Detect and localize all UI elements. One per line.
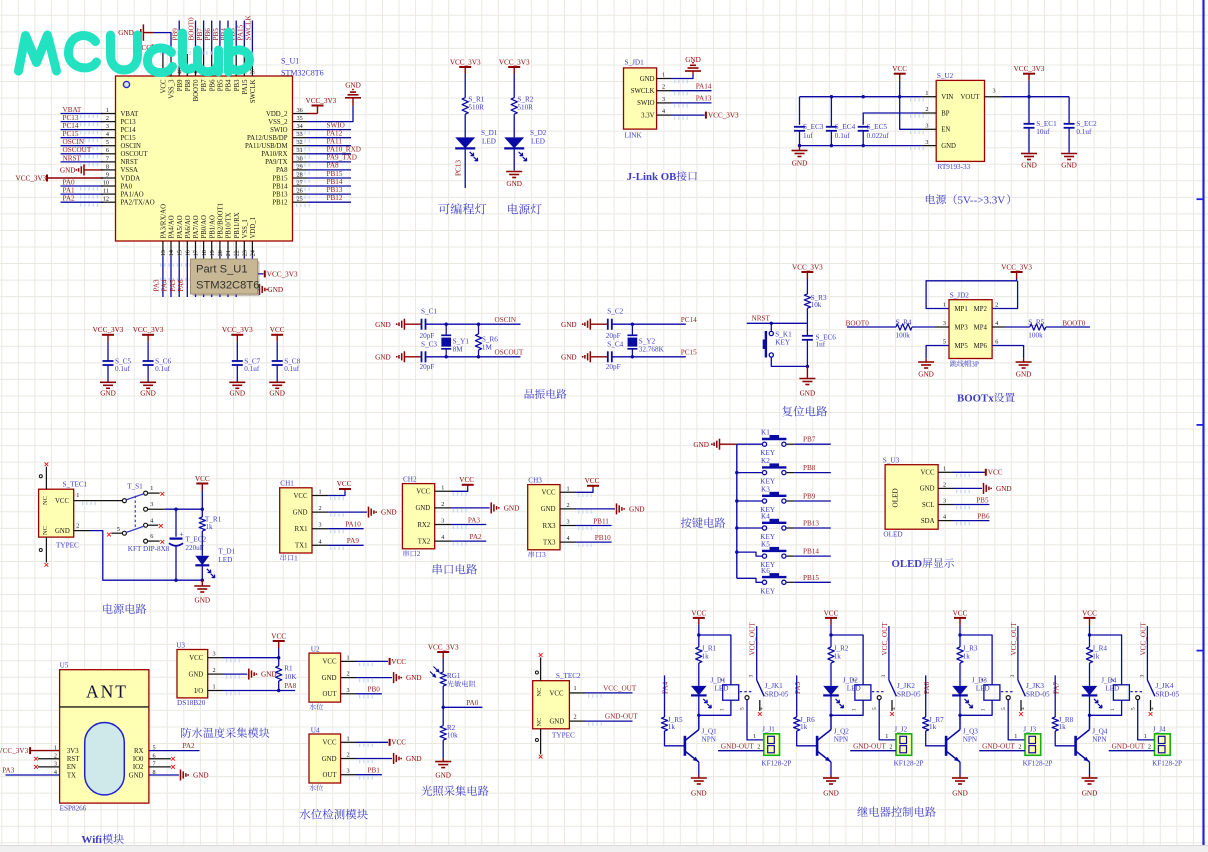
svg-text:0.1uf: 0.1uf (155, 365, 171, 373)
ground MP6 (992, 346, 1024, 359)
svg-text:2: 2 (347, 752, 350, 759)
svg-text:1: 1 (319, 489, 322, 496)
svg-text:7: 7 (106, 155, 109, 162)
svg-text:PB10/TX: PB10/TX (226, 212, 233, 238)
svg-text:PA4: PA4 (161, 279, 169, 292)
svg-text:TYPEC: TYPEC (552, 731, 575, 739)
svg-text:VCC: VCC (189, 655, 203, 662)
svg-text:VCC_3V3: VCC_3V3 (133, 326, 164, 334)
wire net GND-OUT relay (979, 750, 1025, 752)
svg-text:S_D1: S_D1 (481, 129, 498, 137)
svg-text:PB9: PB9 (177, 79, 184, 91)
wire BOOT0 left with resistor S_R4 100k (935, 326, 949, 328)
wire net PA14 (671, 90, 712, 92)
svg-text:PB1: PB1 (368, 766, 381, 774)
svg-text:PA8: PA8 (276, 167, 288, 174)
svg-text:VCC_3V3: VCC_3V3 (267, 270, 298, 278)
svg-text:J_JK1: J_JK1 (765, 682, 783, 690)
svg-text:PA12/USB/DP: PA12/USB/DP (247, 135, 288, 142)
svg-text:PA11/USB/DM: PA11/USB/DM (245, 143, 288, 150)
svg-text:GND: GND (1061, 162, 1077, 170)
wire net GND-OUT relay (850, 750, 896, 752)
svg-text:GND: GND (691, 790, 707, 798)
ground temp sensor (223, 673, 247, 675)
svg-text:S_U2: S_U2 (937, 72, 954, 80)
svg-text:VCC: VCC (161, 79, 168, 93)
key K4 (737, 527, 763, 529)
power VCC OLED (953, 471, 984, 473)
svg-text:T_S1: T_S1 (127, 482, 143, 490)
wire (61, 113, 104, 115)
svg-text:2: 2 (720, 679, 726, 682)
svg-text:29: 29 (297, 163, 303, 170)
svg-text:1: 1 (347, 654, 350, 661)
svg-text:4: 4 (1020, 707, 1026, 710)
label 电源（5V-3.3V） (926, 194, 935, 204)
capacitor S_C5 0.1uf (103, 360, 114, 362)
svg-text:SWCLK: SWCLK (245, 15, 253, 41)
capacitor T_EC2 220uF (175, 509, 177, 537)
svg-text:VCC: VCC (294, 493, 308, 500)
power VCC_3V3 for cap S_C6 (142, 334, 154, 336)
ground into S_C1 (399, 319, 404, 330)
svg-text:KF128-2P: KF128-2P (761, 759, 791, 767)
wire net PB10 (576, 541, 611, 543)
svg-text:KEY: KEY (775, 339, 791, 347)
svg-text:J_R1: J_R1 (702, 645, 717, 653)
key K1 (737, 443, 763, 445)
svg-text:VCC: VCC (391, 739, 406, 747)
wire EN to VIN (900, 97, 922, 130)
svg-text:2: 2 (852, 679, 858, 682)
wire keys trunk (736, 444, 738, 578)
svg-text:OSCOUT: OSCOUT (63, 146, 92, 154)
svg-text:VSS_2: VSS_2 (268, 119, 288, 126)
svg-text:PA12: PA12 (327, 130, 343, 138)
svg-text:GND: GND (60, 167, 76, 175)
resistor J_R1 1k (698, 635, 700, 647)
ground under S_C6 (140, 382, 156, 388)
svg-text:3: 3 (441, 518, 444, 525)
svg-text:3: 3 (943, 320, 946, 327)
svg-text:GND: GND (140, 389, 156, 397)
svg-text:PC15: PC15 (681, 349, 697, 357)
svg-text:S_R5: S_R5 (1028, 318, 1044, 326)
svg-text:VCC_OUT: VCC_OUT (603, 684, 637, 692)
wire net PB6 (953, 520, 989, 522)
svg-text:VCC_3V3: VCC_3V3 (306, 97, 337, 105)
power VCC input node (196, 483, 208, 485)
svg-text:PB12: PB12 (327, 194, 343, 202)
svg-text:RG1: RG1 (447, 672, 461, 680)
svg-text:VCC_3V3: VCC_3V3 (450, 58, 481, 66)
wire NRST (747, 322, 808, 324)
svg-text:1k: 1k (205, 523, 213, 531)
svg-text:3.3V: 3.3V (641, 112, 654, 119)
svg-text:RX2: RX2 (417, 522, 430, 529)
wire PC15 row (612, 356, 686, 358)
svg-text:SRD-05: SRD-05 (1156, 690, 1180, 698)
wire to relay coil top (960, 635, 992, 685)
wire net PA9 (328, 544, 363, 546)
svg-text:PA6/AO: PA6/AO (185, 215, 192, 238)
svg-text:3: 3 (1139, 675, 1145, 678)
svg-text:OSCIN: OSCIN (495, 316, 517, 324)
wire net PB9 (794, 500, 831, 502)
svg-text:J_R4: J_R4 (1092, 645, 1107, 653)
svg-text:VCC_3V3: VCC_3V3 (1014, 65, 1045, 73)
svg-text:PA14: PA14 (696, 82, 712, 90)
svg-text:SWIO: SWIO (270, 127, 287, 134)
svg-text:GND: GND (381, 509, 397, 517)
svg-text:GND: GND (345, 82, 361, 90)
svg-text:PC14: PC14 (121, 127, 137, 134)
svg-text:NC: NC (536, 688, 543, 697)
svg-text:GND: GND (629, 506, 645, 514)
svg-text:5: 5 (943, 339, 946, 346)
wire net PB13 (794, 527, 831, 529)
svg-text:0.1uf: 0.1uf (115, 365, 131, 373)
LED J_D3 (952, 686, 968, 696)
svg-text:PB13: PB13 (272, 191, 288, 198)
wire net PB14 (794, 555, 831, 557)
svg-text:PA9: PA9 (347, 537, 360, 545)
svg-text:GND: GND (561, 353, 577, 361)
svg-text:21: 21 (225, 250, 232, 256)
svg-text:NRST: NRST (121, 159, 139, 166)
svg-text:2: 2 (213, 667, 216, 674)
wire net PA3 (451, 524, 486, 526)
svg-text:K5: K5 (761, 541, 770, 549)
svg-text:T_D1: T_D1 (218, 548, 235, 556)
capacitor S_EC4 0.1uf (826, 126, 837, 128)
svg-text:BOOTx: BOOTx (957, 393, 994, 405)
svg-text:SWCLK: SWCLK (631, 88, 655, 95)
svg-text:VCC_OUT: VCC_OUT (1139, 622, 1147, 656)
svg-text:8: 8 (106, 163, 109, 170)
svg-text:5V-->3.3V: 5V-->3.3V (958, 195, 1006, 207)
svg-text:S_EC5: S_EC5 (867, 123, 888, 131)
wire net PA13 (671, 102, 712, 104)
svg-text:4: 4 (891, 707, 897, 710)
wire net PA8 (223, 690, 295, 692)
power VCC CH2 (451, 487, 468, 491)
svg-text:PB10: PB10 (595, 534, 611, 542)
svg-text:1: 1 (567, 485, 570, 492)
power VCC U2 (356, 660, 388, 662)
svg-text:PB8: PB8 (803, 464, 816, 472)
svg-text:SWCLK: SWCLK (250, 79, 257, 103)
svg-text:VSS_3: VSS_3 (169, 79, 176, 99)
svg-text:0.1uf: 0.1uf (244, 365, 260, 373)
relay coil J_JK3 (984, 685, 1000, 700)
svg-text:25: 25 (297, 196, 303, 203)
svg-text:GND: GND (996, 485, 1012, 493)
svg-text:1k: 1k (800, 723, 808, 731)
svg-text:PA0: PA0 (121, 183, 133, 190)
svg-text:GND: GND (118, 29, 134, 37)
svg-text:GND: GND (322, 675, 337, 682)
svg-text:2: 2 (981, 679, 987, 682)
svg-text:VDD_1: VDD_1 (250, 217, 257, 239)
svg-text:PA11: PA11 (327, 138, 343, 146)
svg-text:2: 2 (347, 671, 350, 678)
wire PC14 row (612, 323, 686, 325)
svg-text:GND: GND (129, 772, 144, 779)
svg-text:RX1: RX1 (295, 526, 308, 533)
label 串口电路 (433, 564, 442, 575)
svg-text:LED: LED (847, 684, 861, 692)
svg-text:OLED: OLED (892, 558, 923, 570)
power VCC_3V3 wifi (29, 747, 31, 754)
capacitor S_EC5 0.022uf (858, 126, 869, 128)
svg-text:LED: LED (1105, 684, 1119, 692)
svg-text:GND: GND (504, 505, 520, 513)
svg-text:LED: LED (976, 684, 990, 692)
svg-text:VCC_3V3: VCC_3V3 (16, 174, 47, 182)
svg-text:J_JK2: J_JK2 (897, 682, 915, 690)
svg-text:K6: K6 (761, 567, 770, 575)
wire net PC13 (464, 147, 466, 188)
svg-text:BOOT0: BOOT0 (193, 79, 200, 102)
svg-text:20pF: 20pF (606, 332, 621, 340)
svg-text:1M: 1M (482, 343, 493, 351)
label 按键电路 (681, 518, 692, 528)
ground U4 (356, 758, 392, 760)
svg-text:J_J3: J_J3 (1023, 726, 1036, 734)
svg-text:GND: GND (941, 143, 956, 150)
svg-text:EN: EN (67, 764, 76, 771)
relay switch J_JK3 SRD-05 (1001, 691, 1015, 693)
svg-text:2: 2 (1148, 743, 1151, 750)
wire net PA2 RX (149, 750, 200, 752)
wire IO0 stub (149, 758, 171, 760)
svg-text:GND: GND (322, 756, 337, 763)
power VCC_3V3 VDD_1 pin24 (252, 256, 263, 274)
svg-text:J_Q3: J_Q3 (963, 727, 979, 735)
svg-text:PA0: PA0 (466, 699, 479, 707)
power VCC_3V3 output (1023, 73, 1035, 75)
svg-text:VDDA: VDDA (121, 175, 141, 182)
svg-text:32.768K: 32.768K (639, 345, 665, 353)
svg-text:GND: GND (550, 719, 565, 726)
svg-text:NRST: NRST (63, 154, 82, 162)
svg-text:PA10/RX: PA10/RX (261, 151, 287, 158)
svg-text:3: 3 (567, 519, 570, 526)
capacitor S_EC1 10uf (1028, 97, 1030, 124)
svg-text:GND: GND (230, 389, 246, 397)
svg-text:PB15: PB15 (272, 175, 288, 182)
svg-text:S_R4: S_R4 (896, 318, 912, 326)
svg-text:GND: GND (918, 371, 934, 379)
svg-text:OSCOUT: OSCOUT (121, 151, 149, 158)
svg-text:S_C4: S_C4 (607, 341, 623, 349)
svg-text:GND: GND (100, 389, 116, 397)
svg-text:VCC_3V3: VCC_3V3 (222, 326, 253, 334)
svg-text:J_Q2: J_Q2 (834, 727, 850, 735)
svg-text:VCC: VCC (337, 480, 352, 488)
svg-text:EN: EN (941, 127, 950, 134)
svg-text:GND: GND (1021, 162, 1037, 170)
svg-text:SWIO: SWIO (637, 100, 654, 107)
svg-text:PB15: PB15 (327, 170, 343, 178)
svg-text:PC15: PC15 (121, 135, 137, 142)
svg-text:26: 26 (297, 188, 303, 195)
svg-text:4: 4 (759, 707, 765, 710)
label 光照采集电路 (421, 786, 432, 796)
svg-text:J_JK4: J_JK4 (1156, 682, 1174, 690)
svg-text:28: 28 (297, 171, 303, 178)
resistor R1 10K (278, 658, 280, 666)
svg-text:VIN: VIN (941, 94, 953, 101)
svg-text:+: + (179, 530, 183, 539)
svg-text:VCC: VCC (921, 470, 935, 477)
svg-text:KF128-2P: KF128-2P (1023, 759, 1053, 767)
ground under S_C8 (269, 382, 285, 388)
power VCC_3V3 reset (801, 271, 813, 273)
wire IO2 stub (149, 766, 171, 768)
ground relay J_Q2 (830, 762, 832, 775)
svg-text:VCC: VCC (391, 658, 406, 666)
svg-text:1: 1 (1110, 708, 1116, 711)
svg-text:2: 2 (757, 743, 760, 750)
label 防水温度采集模块 (181, 728, 191, 738)
resistor R2 10k (442, 707, 444, 725)
U1 bottom pins (162, 241, 164, 256)
svg-text:GND: GND (415, 505, 430, 512)
svg-text:3: 3 (213, 651, 216, 658)
svg-text:VCC: VCC (988, 469, 1003, 477)
wire net PB7 (794, 443, 831, 445)
wire BP to S_EC5 (863, 113, 922, 125)
svg-text:PB5: PB5 (212, 28, 220, 41)
svg-text:BOOT0: BOOT0 (846, 319, 870, 327)
svg-text:2: 2 (567, 502, 570, 509)
svg-text:1: 1 (981, 708, 987, 711)
power VCC temp sensor (273, 640, 285, 642)
svg-text:PA3: PA3 (2, 767, 15, 775)
logo MCUclub (19, 32, 250, 73)
svg-text:4: 4 (150, 517, 153, 524)
svg-text:J_J4: J_J4 (1153, 726, 1166, 734)
svg-text:4: 4 (567, 535, 570, 542)
LED J_D1 (691, 686, 707, 696)
svg-text:VBAT: VBAT (63, 106, 82, 114)
svg-text:1: 1 (150, 485, 153, 492)
svg-text:VSSA: VSSA (121, 167, 138, 174)
svg-text:S_JD1: S_JD1 (625, 59, 645, 67)
svg-text:VCC: VCC (824, 609, 839, 617)
wire GND rail (800, 145, 922, 147)
svg-text:VCC_OUT: VCC_OUT (881, 622, 889, 656)
svg-text:PA3: PA3 (153, 279, 161, 292)
svg-text:PB0/AO: PB0/AO (201, 215, 208, 239)
svg-text:OSCOUT: OSCOUT (495, 349, 524, 357)
svg-text:PA5: PA5 (794, 681, 802, 694)
svg-text:VCC: VCC (550, 690, 564, 697)
svg-text:10: 10 (103, 179, 109, 186)
wire VIN rail (800, 96, 922, 98)
svg-text:J_Q1: J_Q1 (702, 727, 718, 735)
svg-text:VCC: VCC (459, 476, 474, 484)
svg-text:PA4/AO: PA4/AO (169, 215, 176, 238)
svg-text:2: 2 (889, 743, 892, 750)
svg-text:VCC: VCC (542, 490, 556, 497)
svg-text:PB14: PB14 (803, 548, 819, 556)
svg-text:3: 3 (925, 139, 928, 146)
svg-text:GND: GND (792, 160, 808, 168)
svg-text:0.022uf: 0.022uf (867, 132, 890, 140)
svg-text:PA15: PA15 (242, 79, 249, 94)
svg-text:U4: U4 (311, 726, 320, 734)
transistor J_Q1 NPN (684, 736, 687, 756)
svg-text:36: 36 (297, 107, 303, 114)
ground under S_EC3 (799, 146, 801, 151)
svg-text:3V3: 3V3 (67, 748, 79, 755)
wire contact to connector (879, 700, 896, 740)
svg-text:PA15: PA15 (237, 24, 245, 40)
wire net PB1 (356, 774, 382, 776)
svg-text:OUT: OUT (323, 691, 338, 698)
relay coil J_JK2 (855, 685, 871, 700)
svg-text:VCC: VCC (270, 326, 285, 334)
svg-text:VDD_2: VDD_2 (266, 111, 288, 118)
svg-text:GND-OUT: GND-OUT (1112, 742, 1145, 750)
capacitor S_C1 20pF (421, 319, 423, 330)
svg-text:0.1uf: 0.1uf (835, 132, 851, 140)
svg-text:9: 9 (106, 171, 109, 178)
svg-text:J_Q4: J_Q4 (1092, 727, 1108, 735)
ground wifi (149, 774, 179, 776)
svg-text:1: 1 (213, 684, 216, 691)
wire to relay coil top (1090, 635, 1122, 685)
power VCC_3V3 J-Link pin4 (671, 114, 705, 116)
wire VCC row (223, 657, 279, 659)
wire to relay coil top (699, 635, 731, 685)
svg-text:16: 16 (185, 250, 192, 256)
power VCC relay J_R3 (954, 617, 966, 619)
svg-text:PA6: PA6 (923, 681, 931, 694)
wire TEC2 top stub (540, 657, 542, 680)
svg-text:1: 1 (574, 685, 577, 692)
svg-text:GND: GND (506, 180, 522, 188)
capacitor S_EC2 0.1uf (1068, 97, 1070, 124)
svg-text:S_EC4: S_EC4 (835, 123, 856, 131)
svg-text:S_Y1: S_Y1 (453, 337, 470, 345)
power VCC relay J_R1 (693, 617, 705, 619)
ground OLED (953, 487, 982, 489)
svg-text:3: 3 (1010, 675, 1016, 678)
svg-text:1: 1 (441, 484, 444, 491)
svg-text:5: 5 (106, 139, 109, 146)
svg-text:S_C1: S_C1 (421, 308, 437, 316)
svg-text:LED: LED (715, 684, 729, 692)
svg-text:510R: 510R (517, 103, 533, 111)
U1 left pins (101, 113, 116, 115)
svg-text:100k: 100k (896, 331, 911, 339)
svg-text:PB5: PB5 (218, 79, 225, 91)
svg-text:14: 14 (168, 250, 175, 256)
svg-text:PB8: PB8 (185, 79, 192, 91)
svg-text:PC15: PC15 (63, 130, 79, 138)
svg-text:GND-OUT: GND-OUT (605, 713, 638, 721)
wire net PA2 (451, 540, 486, 542)
svg-text:2: 2 (995, 302, 998, 309)
svg-text:VCC: VCC (55, 498, 69, 505)
svg-text:PB2/BOOT1: PB2/BOOT1 (218, 203, 225, 239)
svg-text:2: 2 (441, 501, 444, 508)
ground MP5 (926, 346, 949, 359)
